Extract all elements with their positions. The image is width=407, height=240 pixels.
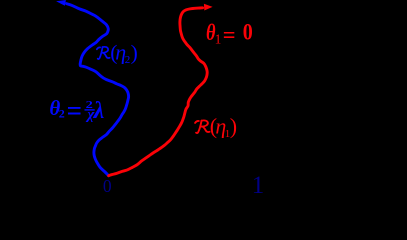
svg-text:0: 0 (103, 176, 112, 196)
svg-text:=: = (67, 95, 82, 125)
svg-text:0: 0 (243, 20, 253, 45)
svg-text:2: 2 (59, 107, 65, 121)
svg-text:λ: λ (93, 98, 105, 124)
svg-text:=: = (223, 22, 236, 47)
svg-text:): ) (230, 113, 237, 138)
svg-text:1: 1 (252, 172, 264, 196)
svg-text:1: 1 (215, 32, 222, 47)
svg-text:2: 2 (125, 54, 131, 66)
svg-text:): ) (131, 41, 138, 65)
